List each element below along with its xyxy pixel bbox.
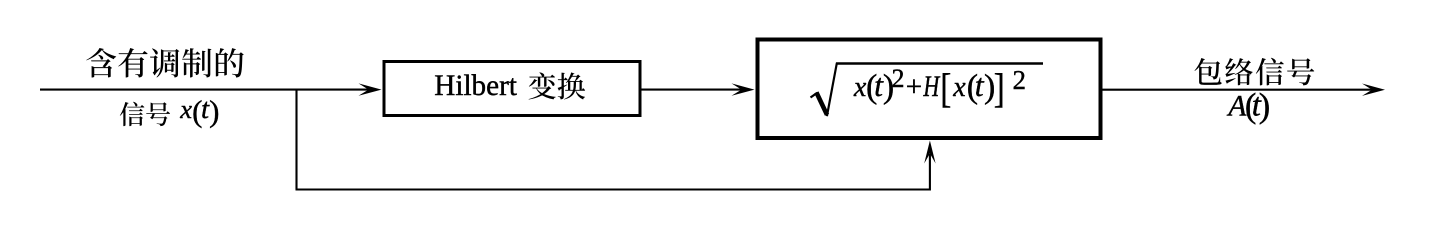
formula: radical sign ascender: [827, 63, 837, 116]
wire: output line: [1103, 89, 1375, 91]
wire: Hilbert block to sqrt block: [642, 89, 744, 91]
arrowhead: output arrow: [1362, 84, 1385, 96]
wire: feedback vertical up into sqrt block: [929, 154, 931, 191]
svg-text:]: ]: [994, 66, 1005, 111]
label: 含有调制的 (input label, line 1): [86, 48, 243, 78]
svg-text:H: H: [923, 70, 942, 103]
label: 信号 (input label, line 2): [120, 102, 170, 126]
svg-text:[: [: [940, 66, 951, 111]
wire: input signal line: [40, 89, 370, 91]
label: 包络信号 (output label, line 1): [1194, 58, 1314, 86]
formula: radical sign tick: [811, 93, 818, 98]
label: 变换 (block U1 text, CJK part): [529, 72, 586, 99]
formula: vinculum overbar: [836, 62, 1043, 64]
formula: radical sign thick descender: [816, 92, 827, 114]
svg-text:+: +: [906, 71, 922, 103]
svg-text:2: 2: [1013, 65, 1027, 95]
block U1: Hilbert transform box: [384, 62, 640, 116]
svg-text:): ): [1259, 87, 1271, 125]
wire: feedback bottom horizontal: [296, 188, 931, 190]
svg-text:x: x: [952, 72, 966, 103]
block U2: envelope sqrt box: [758, 40, 1101, 139]
svg-text:x: x: [853, 72, 867, 103]
wire: branch vertical drop at junction: [295, 89, 297, 190]
svg-text:2: 2: [891, 64, 904, 93]
arrowhead: input arrow into Hilbert block: [359, 83, 382, 95]
svg-text:x: x: [179, 94, 192, 124]
arrowhead: arrow into sqrt block: [732, 83, 755, 95]
arrowhead: feedback arrow up into sqrt block bottom: [924, 141, 935, 164]
svg-text:Hilbert: Hilbert: [434, 70, 517, 102]
svg-text:): ): [209, 93, 219, 128]
